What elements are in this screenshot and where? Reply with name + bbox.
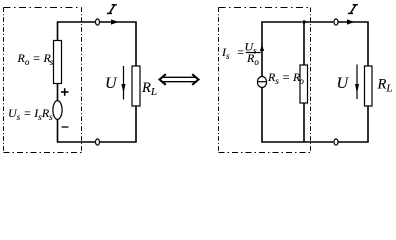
wire: voltage source bottom to bottom-left corner and to bottom terminal — [58, 119, 96, 142]
wire: resistor Ro bottom to voltage source top — [57, 84, 59, 102]
equivalence double arrow — [160, 74, 199, 85]
voltage arrow U (left, pointing down) — [122, 66, 126, 100]
wire: current source branch (top corner down to circle) — [262, 22, 302, 77]
voltage source Us (ellipse) — [53, 101, 62, 120]
wire: bottom terminal to load bottom corner (right circuit) — [338, 106, 368, 142]
terminal (right circuit, bottom) — [334, 139, 338, 145]
wire: top terminal to load corner (left circuit) — [100, 22, 136, 66]
polarity minus sign of Us — [62, 126, 69, 128]
wire: top terminal to load corner (right circuit) — [338, 22, 368, 66]
label I (right circuit) — [348, 5, 358, 14]
current source Is (circle with bar) — [257, 77, 266, 88]
wire: top wire junction to top terminal (right circuit) — [304, 21, 333, 23]
wire: current source bottom to bottom corner — [262, 88, 333, 143]
wire: left source branch top (resistor Ro to top corner) — [58, 22, 96, 41]
svg-text:U: U — [105, 75, 118, 92]
polarity plus sign of Us — [61, 88, 69, 96]
resistor Rs (parallel internal resistance) — [300, 65, 308, 103]
voltage arrow U (right, pointing down) — [355, 65, 359, 100]
junction dot (right circuit, top) — [302, 20, 305, 23]
wire: bottom terminal to load bottom corner (left circuit) — [100, 106, 136, 142]
current direction arrowhead Is (pointing up) — [260, 45, 264, 51]
terminal (left circuit, top) — [96, 19, 100, 25]
terminal (left circuit, bottom) — [96, 139, 100, 145]
svg-text:Rs = Ro: Rs = Ro — [267, 70, 304, 86]
svg-text:U: U — [337, 75, 350, 92]
svg-text:Us = IsRs: Us = IsRs — [8, 106, 53, 122]
svg-text:Ro = Rs: Ro = Rs — [17, 51, 54, 67]
current arrowhead I (right circuit) — [347, 19, 355, 24]
label I (left circuit) — [107, 5, 117, 14]
left source box (dash-dot boundary) — [4, 8, 82, 153]
resistor RL (left load) — [132, 66, 140, 106]
resistor Ro (internal resistance, left) — [54, 41, 62, 84]
right source box (dash-dot boundary) — [219, 8, 311, 153]
label Is = Us/Ro (fraction) — [221, 40, 261, 68]
wire: resistor Rs bottom to bottom wire — [303, 103, 305, 142]
current arrowhead I (left circuit) — [111, 19, 119, 24]
resistor RL (right load) — [365, 66, 373, 106]
wire: junction down to resistor Rs — [303, 22, 305, 65]
terminal (right circuit, top) — [334, 19, 338, 25]
svg-text:Is =: Is = — [221, 45, 245, 61]
